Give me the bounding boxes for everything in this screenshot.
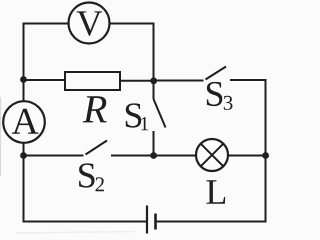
label S1 subscript bbox=[141, 117, 148, 130]
switch S1 blade bbox=[154, 99, 166, 128]
voltmeter circle bbox=[69, 3, 110, 44]
wire left vertical upper bbox=[23, 23, 25, 102]
wire bottom left to battery bbox=[24, 221, 148, 223]
wire S2 to node D and lamp bbox=[111, 155, 196, 157]
switch S1 bottom lead bbox=[153, 131, 155, 156]
junction node dot D (mid lower) bbox=[150, 152, 157, 159]
label L bbox=[206, 180, 225, 204]
wire left vertical lower bbox=[23, 143, 25, 223]
wire battery to bottom right bbox=[156, 221, 266, 223]
battery short plate bbox=[154, 214, 157, 230]
label S3 bbox=[207, 82, 222, 106]
label R bbox=[83, 96, 107, 122]
label S3 subscript bbox=[224, 96, 233, 110]
label A bbox=[12, 109, 39, 134]
switch S3 blade bbox=[206, 67, 227, 80]
ammeter circle bbox=[3, 101, 45, 143]
wire top-left horizontal bbox=[23, 23, 69, 25]
junction node dot C (left lower) bbox=[20, 152, 27, 159]
wire S3 right contact bbox=[230, 79, 267, 81]
lamp L circle bbox=[196, 139, 228, 171]
left edge scan artifact bbox=[0, 97, 2, 176]
label S2 bbox=[79, 163, 94, 187]
switch S1 top lead bbox=[153, 81, 155, 100]
label V bbox=[77, 11, 103, 36]
wire top-right horizontal bbox=[110, 23, 155, 25]
wire node B to switch S3 bbox=[154, 80, 204, 82]
bottom edge scan artifact bbox=[16, 232, 135, 234]
label S1 bbox=[126, 103, 141, 127]
junction node dot B (mid upper) bbox=[150, 77, 157, 84]
wire vertical from top wire down to node B bbox=[153, 23, 155, 79]
wire node A to resistor bbox=[24, 79, 66, 81]
resistor R body bbox=[65, 72, 120, 90]
junction node dot A (left upper) bbox=[20, 76, 27, 83]
wire right vertical bbox=[265, 79, 267, 223]
wire lamp to node E bbox=[228, 155, 266, 157]
switch S2 blade bbox=[86, 141, 108, 155]
junction node dot E (right) bbox=[262, 152, 269, 159]
lamp L cross bbox=[201, 144, 224, 167]
wire resistor to node B bbox=[120, 80, 154, 82]
label S2 subscript bbox=[96, 177, 104, 191]
wire node C to switch S2 bbox=[24, 155, 84, 157]
battery long plate bbox=[146, 206, 148, 234]
